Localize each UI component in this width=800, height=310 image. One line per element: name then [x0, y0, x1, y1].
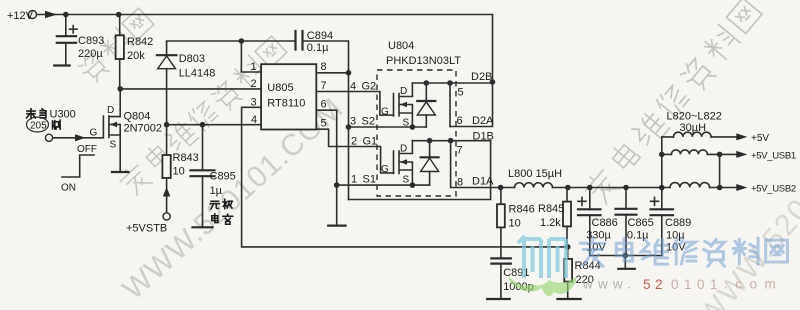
node junction C865 top: [623, 185, 629, 191]
svg-text:D2A: D2A: [472, 115, 494, 127]
svg-text:+12V: +12V: [7, 10, 34, 22]
inductor L800: [515, 183, 553, 188]
svg-text:C894: C894: [307, 30, 333, 42]
svg-text:R842: R842: [127, 36, 153, 48]
node junction C894 left: [239, 38, 245, 44]
svg-text:D2B: D2B: [471, 71, 492, 83]
transistor U804 lower MOSFET Q1: [394, 141, 413, 185]
svg-text:L800 15µH: L800 15µH: [508, 168, 562, 180]
svg-text:G2: G2: [362, 81, 377, 93]
wire ON/OFF waveform: [62, 155, 94, 177]
svg-text:D: D: [400, 144, 407, 155]
wire S2: [349, 126, 427, 128]
node junction upper source: [410, 124, 416, 130]
transistor U804 lower D/G/S labels: [381, 144, 410, 186]
svg-text:C895: C895: [210, 171, 236, 183]
node labels pin 5 6 7 8 / D2B D2A D1B D1A: [457, 71, 495, 189]
wire lower drain D1: [412, 140, 490, 142]
node junction D2B at rail: [490, 79, 496, 85]
transistor Q804 pin and value labels: [90, 105, 163, 151]
node junction ground bus: [623, 253, 629, 259]
wire upper drain D2: [412, 82, 493, 84]
capacitor C895: [191, 125, 215, 227]
capacitor C891: [491, 258, 510, 298]
svg-text:330µ: 330µ: [586, 230, 611, 242]
ground S1: [328, 225, 345, 227]
svg-text:C886: C886: [592, 217, 618, 229]
resistor R842: [116, 15, 124, 89]
svg-text:+5V_USB1: +5V_USB1: [751, 151, 796, 162]
svg-text:10: 10: [173, 166, 185, 178]
node junction L821 right: [717, 152, 723, 158]
svg-text:+5V: +5V: [751, 133, 769, 144]
svg-text:U804: U804: [388, 40, 414, 52]
op-amp U805 pin numbers: [251, 61, 327, 130]
ground output caps: [618, 256, 635, 269]
capacitor C894: [296, 31, 303, 50]
wire L821 to +5V_USB1: [707, 153, 737, 155]
node junction D2B tie: [447, 80, 453, 86]
svg-text:G1: G1: [363, 136, 378, 148]
svg-text:U300: U300: [50, 109, 76, 121]
wire L822 to +5V_USB2: [710, 187, 737, 189]
wire D1A/D1B tie down to output: [451, 141, 515, 188]
node 205 ellipse: [27, 117, 49, 132]
svg-text:4: 4: [350, 81, 356, 93]
node junction pin2 / drain / R842: [117, 86, 123, 92]
wire U805 pin5 to G1: [316, 129, 393, 173]
capacitor C886: [578, 188, 601, 256]
svg-text:G: G: [381, 164, 389, 175]
wire +12V top rail: [37, 15, 493, 127]
wire arrow on +12V rail: [45, 11, 57, 18]
svg-text:U805: U805: [267, 82, 293, 94]
node junction C889 / L bank: [659, 185, 665, 191]
node +5VSTB terminal: [163, 213, 170, 220]
op-amp U805: [261, 64, 316, 129]
node junction FB divider: [565, 244, 571, 250]
wire VCC node to U805 pin4: [167, 124, 262, 126]
svg-text:D1A: D1A: [472, 176, 494, 188]
transistor U804 upper MOSFET Q2: [394, 83, 413, 127]
diode D803: [157, 42, 177, 125]
svg-text:3: 3: [350, 116, 356, 128]
svg-text:2: 2: [251, 78, 257, 90]
wire BOOT node C894-left / D803 / U805 pin1: [167, 41, 296, 72]
svg-text:6: 6: [457, 115, 463, 127]
diode upper body diode: [417, 83, 435, 127]
inductor L821: [662, 150, 708, 155]
svg-text:5: 5: [458, 87, 464, 99]
capacitor C889: [651, 188, 674, 256]
diode lower body diode: [421, 141, 439, 185]
svg-text:www.: www.: [582, 277, 636, 292]
node junction C886 top: [587, 185, 593, 191]
resistor R846: [497, 188, 505, 259]
node junction L822 right: [717, 185, 723, 191]
svg-text:1µ: 1µ: [210, 185, 223, 197]
svg-text:LL4148: LL4148: [179, 68, 216, 80]
capacitor C893: [57, 15, 77, 66]
svg-text:RT8110: RT8110: [267, 98, 305, 110]
svg-text:6: 6: [321, 99, 327, 111]
wire D2B/D2A tie to +12V rail: [449, 83, 451, 127]
svg-text:D803: D803: [179, 53, 205, 65]
svg-text:D1B: D1B: [473, 131, 494, 143]
resistor R845: [563, 188, 571, 247]
svg-text:3: 3: [251, 97, 257, 109]
svg-text:C893: C893: [78, 35, 104, 47]
svg-text:S: S: [110, 140, 117, 151]
svg-text:S1: S1: [363, 174, 376, 186]
node junction lower body diode top: [427, 138, 433, 144]
node junction upper body diode top: [424, 80, 430, 86]
wire S2 to D1 switch node: [349, 141, 491, 200]
svg-text:220µ: 220µ: [78, 48, 103, 60]
node junction C895 top: [200, 122, 206, 128]
svg-text:2: 2: [351, 136, 357, 148]
svg-text:0.1µ: 0.1µ: [307, 42, 329, 54]
wire U805 pin8 to S2: [316, 72, 348, 74]
node junction S2 / pin8 tie: [346, 124, 352, 130]
node junction U805 pin8: [346, 70, 352, 76]
logo book icon: [518, 236, 566, 278]
inductor L820: [674, 132, 712, 137]
svg-text:ON: ON: [61, 183, 76, 194]
resistor R843: [162, 125, 170, 213]
watermark site logo and url (foreground): [509, 236, 788, 296]
capacitor C865: [616, 188, 637, 256]
svg-text:R843: R843: [173, 152, 199, 164]
svg-text:1: 1: [351, 174, 357, 186]
svg-text:.com: .com: [724, 277, 783, 292]
svg-text:S2: S2: [362, 116, 375, 128]
svg-text:C889: C889: [665, 217, 691, 229]
svg-text:1: 1: [251, 61, 257, 73]
svg-text:2N7002: 2N7002: [124, 123, 163, 135]
wire U805 pin2 to Q804 drain: [120, 88, 261, 90]
node input terminal from U300: [45, 134, 52, 141]
svg-text:S: S: [403, 175, 410, 186]
wire U805 pin7 to G2: [316, 92, 393, 116]
node junction D1 tie: [448, 138, 454, 144]
svg-text:R845: R845: [538, 203, 564, 215]
svg-text:L820~L822: L820~L822: [667, 111, 722, 123]
svg-text:R846: R846: [509, 204, 535, 216]
node junction R842 top: [116, 12, 122, 18]
node labels 4 G2 / 3 S2 / 2 G1 / 1 S1: [350, 81, 377, 186]
svg-text:8: 8: [457, 177, 463, 189]
svg-text:OFF: OFF: [77, 144, 97, 155]
svg-text:8: 8: [321, 61, 327, 73]
svg-text:205: 205: [30, 121, 47, 132]
node junction D803/R843: [164, 122, 170, 128]
capacitor C895 value labels: [210, 171, 236, 225]
node +12V terminal: [29, 11, 37, 19]
ground Q804 source: [112, 171, 129, 173]
wire U805 pin3 FB to divider: [242, 107, 568, 247]
node junction C893 top: [63, 12, 69, 18]
node junction L821 left: [659, 152, 665, 158]
op-amp U804 dashed package box: [377, 70, 456, 196]
resistor R844: [564, 247, 572, 299]
svg-text:G: G: [90, 128, 98, 139]
wire L820 to +5V: [711, 136, 737, 138]
svg-text:5: 5: [321, 118, 327, 130]
svg-text:D: D: [400, 86, 407, 97]
wire C894 right to pin8/S2 tie: [303, 41, 349, 200]
wire S1: [337, 184, 430, 186]
svg-text:C865: C865: [628, 217, 654, 229]
svg-text:20k: 20k: [127, 50, 145, 62]
svg-text:G: G: [381, 107, 389, 118]
svg-text:7: 7: [457, 145, 463, 157]
node junction R845 top: [565, 185, 571, 191]
node junction switch node at R846: [498, 185, 504, 191]
svg-text:7: 7: [321, 80, 327, 92]
svg-text:Q804: Q804: [124, 111, 151, 123]
ground C891: [487, 298, 510, 300]
svg-text:+5VSTB: +5VSTB: [126, 223, 167, 235]
svg-text:+5V_USB2: +5V_USB2: [751, 184, 796, 195]
inductor L822: [670, 183, 710, 188]
svg-text:30µH: 30µH: [680, 122, 707, 134]
svg-text:10: 10: [509, 218, 521, 230]
logo url www.520101.com: [582, 277, 783, 293]
svg-text:S: S: [403, 118, 410, 129]
wire capacitor common ground bus: [590, 255, 662, 257]
node label 来自U300 205脚: [27, 109, 76, 132]
ground C895: [193, 226, 213, 228]
logo blue text 家电维修资料网: [580, 238, 787, 266]
ground R844: [557, 298, 580, 300]
wire U805 pin6 to S1/ground: [316, 110, 336, 224]
node junction S1 left: [334, 182, 340, 188]
svg-text:D: D: [107, 105, 114, 116]
wire USB tie vertical: [719, 154, 721, 187]
ground C893: [54, 64, 69, 66]
node junction S1 at source: [410, 182, 416, 188]
wire +5V output rail: [553, 187, 671, 189]
svg-text:1.2k: 1.2k: [540, 217, 561, 229]
svg-text:0101: 0101: [671, 277, 723, 292]
svg-text:4: 4: [251, 114, 257, 126]
svg-text:PHKD13N03LT: PHKD13N03LT: [386, 55, 461, 67]
transistor U804 upper D/G/S labels: [381, 86, 410, 129]
logo green ribbon: [509, 276, 576, 296]
wire L bank feed vertical: [662, 137, 674, 188]
transistor Q804: [53, 89, 121, 172]
svg-text:52: 52: [643, 277, 667, 292]
